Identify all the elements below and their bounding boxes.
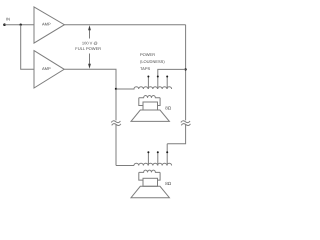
speaker LS2 cone (131, 186, 169, 197)
svg-text:8Ω: 8Ω (165, 181, 172, 186)
annotation arrow up (88, 25, 91, 38)
wire right bus upper (185, 25, 187, 121)
wire right bus lower to T2 tap (167, 125, 185, 144)
svg-text:POWER: POWER (140, 52, 155, 57)
T1 tap 3 (166, 76, 168, 90)
node tap wire on right bus (184, 68, 186, 70)
wire T1 secondary leads (139, 98, 160, 106)
svg-text:AMP: AMP (42, 21, 51, 26)
T2 tap 2 (157, 151, 159, 165)
svg-text:8Ω: 8Ω (165, 106, 172, 111)
speaker LS2 driver (143, 178, 158, 186)
input terminal IN (3, 17, 10, 26)
T1 tap 2 (connected) (157, 69, 186, 89)
node T1 primary junction (115, 88, 117, 90)
transformer T2 secondary winding (139, 170, 160, 172)
op-amp AMP1 (34, 7, 64, 43)
wire input horizontal (5, 24, 35, 26)
svg-text:IN: IN (6, 17, 10, 22)
label 100 V @ FULL POWER (75, 40, 101, 51)
T2 tap 3 (connected) (166, 144, 168, 166)
break marks right bus (181, 120, 191, 127)
wire amp1 output to right bus (64, 24, 185, 26)
speaker LS1 driver (143, 102, 158, 110)
T1 tap 1 (147, 76, 149, 90)
speaker LS1 cone (131, 110, 169, 121)
svg-text:AMP: AMP (42, 66, 51, 71)
wire T2 secondary leads (139, 172, 160, 180)
annotation arrow down (88, 54, 91, 69)
T2 tap 1 (147, 151, 149, 165)
svg-text:TAPS: TAPS (140, 66, 150, 71)
transformer T1 primary winding (116, 87, 172, 89)
break marks left bus (111, 120, 121, 127)
node input junction (20, 24, 22, 26)
wire T2 primary lead (116, 165, 134, 167)
svg-text:(LOUDNESS): (LOUDNESS) (140, 59, 165, 64)
op-amp AMP2 (34, 51, 64, 88)
transformer T2 primary winding (134, 163, 172, 165)
svg-text:100 V @: 100 V @ (82, 40, 98, 45)
wire left bus (115, 89, 117, 166)
transformer T1 secondary winding (139, 95, 160, 97)
svg-text:FULL POWER: FULL POWER (75, 46, 101, 51)
wire amp2 output down to T1 (64, 69, 116, 89)
label POWER (LOUDNESS) TAPS (140, 52, 165, 71)
wire junction down to amp2 input (21, 25, 34, 70)
